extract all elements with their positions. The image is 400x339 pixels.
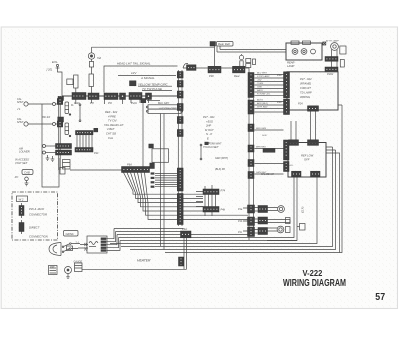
svg-text:N - P: N - P	[206, 132, 212, 136]
label box AT RED	[263, 149, 275, 153]
wire label underline tv pulse	[142, 90, 172, 92]
legend pin-jack symbol	[19, 203, 24, 218]
svg-text:P2H: P2H	[131, 101, 138, 105]
wire bundle b4 y240.5	[120, 177, 297, 241]
svg-text:AT RT LAMP: AT RT LAMP	[325, 40, 339, 43]
switch SW2	[62, 248, 71, 253]
connector J5 on bus	[146, 93, 152, 100]
svg-text:PIN & JACK: PIN & JACK	[29, 207, 44, 211]
svg-text:R TURN +B L: R TURN +B L	[257, 93, 271, 95]
wire fan from P6 pin5	[138, 173, 204, 212]
svg-text:YELLOW TEMP CIRC: YELLOW TEMP CIRC	[138, 82, 169, 86]
connector J7 on left vertical	[57, 121, 62, 127]
connector P16 on tail drop	[179, 257, 184, 266]
connector P9 on bus	[104, 93, 118, 100]
connector strip S1-h	[177, 194, 183, 225]
wire U2 right to corner drops	[326, 147, 336, 150]
svg-text:W 2: W 2	[19, 197, 24, 201]
svg-text:CH: CH	[68, 247, 72, 251]
connector S1-c	[177, 91, 183, 98]
wire heater relay feed y170	[70, 169, 122, 171]
svg-text:M OUT: M OUT	[205, 128, 214, 132]
ladder rung w2	[255, 77, 285, 79]
svg-text:J/C: J/C	[15, 175, 19, 179]
svg-text:RED GRN: RED GRN	[256, 128, 267, 130]
bulb B1	[292, 49, 298, 55]
license lamp	[331, 43, 339, 51]
wire bundle b6 y246.5	[121, 147, 333, 247]
main bus wire y96	[62, 95, 178, 97]
svg-text:RD 4/2: RD 4/2	[42, 115, 51, 119]
svg-text:GRN/L: GRN/L	[66, 232, 75, 236]
wire drops from rear defogger label	[215, 46, 287, 66]
svg-text:4 B&T: 4 B&T	[107, 127, 115, 131]
legend dashed box PIN JACK CONNECTOR	[12, 192, 58, 240]
fuse F1	[67, 75, 78, 93]
svg-text:GAUGE: GAUGE	[74, 260, 83, 263]
svg-text:J 201: J 201	[46, 68, 53, 72]
wire fan from P6 pin7	[145, 173, 249, 220]
ladder rung w6	[255, 91, 285, 93]
connector U2 left edge strip	[284, 140, 290, 160]
spine2 connector m2	[248, 217, 255, 226]
motor M2	[268, 226, 284, 233]
ladder2 rung x4	[255, 111, 285, 113]
inline connector arrows	[85, 243, 87, 251]
connector J4 on bus	[120, 93, 126, 100]
svg-text:CAL: CAL	[108, 136, 114, 140]
wire rear-defogger feed y47	[92, 46, 215, 48]
svg-text:HEATER: HEATER	[137, 259, 151, 263]
svg-text:P4b: P4b	[221, 208, 226, 212]
fusible link FL1	[65, 102, 71, 115]
ladder rung w1	[255, 74, 285, 76]
svg-text:(BLK) 4B: (BLK) 4B	[215, 168, 225, 171]
svg-text:P202: P202	[327, 72, 334, 76]
rear combination lamp box	[286, 41, 322, 60]
wire U2 top feeds	[291, 121, 296, 140]
connector P2H on bus	[129, 93, 142, 100]
connector L1 below license lamp	[325, 57, 338, 62]
svg-text:TV TW PULSE: TV TW PULSE	[142, 87, 163, 91]
heater control panel	[87, 236, 107, 253]
junction block on bus J10b	[58, 117, 64, 122]
net jump J2	[79, 104, 81, 122]
legend direct-connection symbol	[19, 220, 24, 234]
spine2 connector c2	[248, 145, 254, 152]
svg-text:P4A: P4A	[182, 227, 187, 231]
svg-text:+B1G: +B1G	[206, 119, 213, 123]
relay FL3	[63, 160, 71, 170]
junction box JB	[152, 149, 169, 163]
fuse F2 with bulb top	[88, 47, 94, 93]
wire bundle b1 y231.5	[116, 231, 182, 233]
net jump symbol	[200, 144, 202, 160]
ladder3 rung y3	[255, 163, 284, 165]
svg-text:AUTO: AUTO	[256, 99, 263, 102]
svg-text:TURN: TURN	[257, 83, 263, 85]
svg-text:P9: P9	[108, 101, 112, 105]
label box GRN/L	[64, 231, 79, 237]
connector U1 bottom P24	[308, 106, 319, 111]
connector S1-b	[177, 81, 183, 88]
svg-text:ALT FRN CIRC: ALT FRN CIRC	[158, 107, 177, 111]
svg-text:CHT SB: CHT SB	[106, 132, 116, 136]
svg-text:STOP LAMP: STOP LAMP	[257, 75, 270, 78]
wire long vertical x160	[160, 114, 162, 247]
spine2 connector strip A left	[248, 73, 254, 98]
motor M1	[268, 206, 285, 213]
spine harness S1 rails	[178, 70, 182, 226]
ground mark at license lamp	[323, 42, 326, 45]
junction block on bus J10a	[58, 97, 64, 101]
junction block J12	[150, 163, 155, 169]
svg-text:GND: GND	[257, 87, 262, 89]
cigar lighter L1	[65, 267, 72, 279]
connector U2 top a	[289, 140, 299, 146]
gauge unit	[75, 263, 83, 272]
connector U2 bottom a	[292, 171, 302, 177]
wire corner return A2	[267, 240, 297, 242]
svg-text:V-222: V-222	[303, 269, 323, 278]
ladder3 rung y4	[255, 173, 284, 175]
svg-text:LOUVER: LOUVER	[19, 150, 30, 154]
label boxes at F3	[246, 59, 256, 68]
svg-text:Rear: Rear	[234, 74, 240, 78]
svg-text:BACK: BACK	[257, 89, 263, 92]
svg-text:TOUCH SET: TOUCH SET	[203, 145, 219, 149]
label box B yellow	[130, 81, 137, 86]
fuse F3 at spine2 top	[239, 54, 243, 66]
connector S1-e	[177, 117, 183, 124]
spine2 connector c3	[248, 160, 254, 167]
label box D6 blu gry	[141, 99, 160, 103]
pin stems at bus connectors	[76, 100, 149, 105]
svg-text:Rear Defr: Rear Defr	[218, 42, 231, 46]
svg-text:BRN RED: BRN RED	[256, 146, 266, 148]
svg-text:P40: P40	[277, 73, 282, 77]
svg-text:57: 57	[375, 292, 385, 303]
ladder rung w4	[255, 84, 285, 86]
spine2 rails	[249, 73, 254, 240]
wire fan from P6 pin1	[124, 173, 204, 195]
svg-text:P27 - #22: P27 - #22	[300, 77, 312, 81]
svg-text:TV CM: TV CM	[108, 119, 117, 123]
label box MBF	[49, 266, 58, 275]
svg-text:(FRAME): (FRAME)	[300, 82, 311, 86]
connector K2 on bus y68	[208, 66, 221, 73]
connector strip A right	[284, 72, 290, 98]
ground G3 with circle	[25, 177, 29, 186]
wire bundle b7 y249.5	[130, 150, 336, 250]
small element below L1	[332, 60, 345, 68]
svg-text:MBF: MBF	[50, 266, 55, 268]
svg-text:OFF: OFF	[304, 158, 310, 162]
svg-text:CONNECTION: CONNECTION	[29, 235, 49, 239]
wire bundle b5 y243.5	[110, 177, 317, 244]
wires pigtails into spine strip	[151, 172, 178, 187]
antenna symbol EXL	[56, 64, 62, 96]
ladder2 rung x3	[255, 108, 285, 110]
svg-text:P1b: P1b	[238, 220, 243, 223]
connector U2 bottom b	[311, 171, 321, 177]
svg-text:HEAD LHT TAIL SIGNAL: HEAD LHT TAIL SIGNAL	[117, 62, 151, 66]
connector grid P74 body wires	[205, 195, 216, 207]
label prefix box W	[205, 142, 209, 145]
svg-text:(CLR): (CLR)	[302, 206, 305, 213]
wire license lamp down	[332, 50, 338, 57]
svg-text:GLN: GLN	[262, 135, 267, 137]
label small p7 marks	[243, 208, 248, 231]
connector K1 on bus y68	[187, 65, 197, 71]
terminal circles CAL SHUT row1	[24, 102, 60, 106]
wire bundle b8 y252.5	[165, 108, 342, 253]
connector strip S1-g	[177, 168, 183, 191]
svg-text:WIRING DIAGRAM: WIRING DIAGRAM	[283, 278, 346, 289]
rear window defogger box U2	[288, 143, 326, 178]
svg-text:DIRECT: DIRECT	[29, 226, 40, 230]
svg-text:P74: P74	[221, 189, 226, 193]
svg-text:E: E	[207, 137, 209, 141]
svg-text:GRN WHT: GRN WHT	[210, 143, 222, 146]
wire grid tails	[196, 185, 212, 216]
ladder2 rung x1	[255, 101, 285, 103]
svg-text:2HP: 2HP	[205, 124, 211, 128]
spine2 connector c4	[248, 172, 254, 179]
svg-text:4 PRE: 4 PRE	[108, 114, 116, 118]
wire U2 right second drop	[326, 153, 340, 253]
ground G2	[51, 156, 55, 162]
connector P202	[325, 67, 338, 72]
wire fan from P6 pin3	[131, 173, 204, 203]
svg-text:+BU: +BU	[257, 80, 262, 82]
wire tail drop x184	[184, 238, 187, 269]
wire label underline temp circ	[138, 85, 172, 87]
svg-text:GRN (WHT): GRN (WHT)	[215, 157, 228, 160]
svg-text:CONNECTOR: CONNECTOR	[29, 213, 47, 217]
terminal circles to junction block	[43, 145, 56, 155]
connector P8 on bus	[88, 93, 99, 100]
junction block J/C cluster	[56, 144, 72, 156]
connector U2 left edge strip b	[284, 162, 290, 172]
terminal circles CAL SHUT row2	[24, 122, 60, 126]
ladder2 rung x2	[255, 104, 285, 106]
connector K3 on bus y68	[233, 66, 246, 73]
spine2 connector c1	[248, 124, 254, 132]
wires switches to heater panel	[71, 244, 88, 249]
svg-text:TAIL REAR LHT: TAIL REAR LHT	[104, 123, 124, 127]
svg-text:EXL: EXL	[52, 60, 58, 64]
ladder rung w3	[255, 81, 285, 83]
ladder rung w7	[255, 94, 285, 96]
svg-text:BLU WHT: BLU WHT	[257, 73, 268, 75]
bulb B3	[311, 49, 316, 54]
wire bus y68 right section	[183, 68, 249, 73]
wire hop at spine	[183, 63, 188, 68]
wire drop from blu gry label	[142, 103, 144, 167]
svg-text:P6A: P6A	[127, 163, 132, 167]
svg-text:CIRCUIT: CIRCUIT	[300, 86, 311, 90]
connector grid P74 bottom row	[203, 207, 219, 213]
body harness box U1	[287, 72, 338, 110]
mid connector n1	[258, 206, 268, 213]
mid connector n3	[258, 228, 268, 235]
svg-text:BLU GRY: BLU GRY	[158, 101, 170, 105]
svg-text:P27 - #21: P27 - #21	[203, 115, 215, 119]
ladder3 rung y2	[255, 148, 284, 150]
wire bundle b2 y234.5	[117, 234, 248, 236]
switch SW1	[62, 243, 71, 248]
wire gauge to tail harness y269	[82, 268, 187, 270]
connector S1-d	[177, 104, 183, 111]
wire fan from P6 pin4	[134, 173, 203, 207]
wire bundle b3 y237.5	[119, 177, 295, 238]
svg-text:+B L: +B L	[289, 165, 294, 167]
label box at license lamp	[340, 46, 346, 54]
svg-text:J 1: J 1	[17, 107, 21, 111]
wires n2 to corner	[268, 220, 291, 224]
wire U1 right to far corner drop	[338, 105, 342, 108]
bordered table alt frn circ	[146, 105, 182, 114]
svg-text:IN ACCESS: IN ACCESS	[15, 158, 29, 162]
svg-text:P1a: P1a	[238, 208, 243, 211]
label box CH	[67, 246, 73, 251]
connector P3H on bus	[72, 93, 86, 100]
spine2 connector m3	[248, 227, 255, 237]
connector U2 top b	[308, 140, 319, 146]
wire head lht tail signal y66	[104, 66, 178, 93]
svg-text:INTR RAD: INTR RAD	[257, 106, 268, 109]
svg-text:P8: P8	[90, 101, 94, 105]
connector J6 on left vertical	[57, 99, 62, 105]
svg-text:CAB: CAB	[24, 171, 30, 175]
legend label box W2	[17, 196, 28, 202]
wire bundle b0 y228.5	[114, 228, 184, 230]
wire left vertical bus pair	[59, 96, 61, 170]
label box CAB	[22, 170, 33, 175]
mid connector n2	[258, 217, 268, 224]
bulb B2	[301, 49, 307, 55]
horn speaker symbol	[49, 243, 61, 256]
spine2 connector strip B left	[248, 100, 254, 114]
connector grid P74 top row	[203, 189, 219, 195]
svg-text:VOLT SET: VOLT SET	[15, 161, 28, 165]
wire 12V signal y75.5	[118, 75, 176, 77]
connector S1-f	[177, 130, 183, 137]
svg-text:SHUT: SHUT	[17, 121, 24, 124]
wire rear lamp feed y49.5	[220, 46, 286, 50]
svg-text:REF - #22: REF - #22	[105, 110, 118, 114]
fusible link FL2	[65, 123, 71, 137]
label box rear defogger	[210, 42, 233, 47]
ladder rung w5	[255, 88, 285, 90]
svg-text:A SIGNAL: A SIGNAL	[140, 76, 155, 80]
connector P4 on bundle	[181, 231, 192, 238]
svg-text:Tail: Tail	[97, 56, 101, 60]
svg-text:WIRING: WIRING	[300, 95, 310, 99]
ladder3 rung y1	[255, 129, 284, 131]
wire left vertical x42	[42, 104, 59, 187]
connector strip B right	[284, 99, 290, 115]
heater panel inner pins	[101, 238, 107, 252]
svg-text:P30: P30	[209, 74, 214, 78]
svg-text:P21: P21	[94, 151, 99, 155]
wire long vertical x164	[163, 114, 165, 250]
svg-text:TD LAMP: TD LAMP	[300, 91, 312, 95]
svg-text:CAL BD AM: CAL BD AM	[261, 173, 274, 176]
wire fan from P6 pin2	[127, 173, 203, 199]
connector P6 wide	[122, 167, 150, 173]
junction block J11	[149, 144, 154, 148]
fuse block grid P21	[75, 128, 98, 152]
svg-text:LAMP: LAMP	[287, 64, 295, 68]
wire fan from P6 pin6	[141, 173, 248, 216]
spine2 connector m1	[248, 205, 255, 213]
svg-text:P3H: P3H	[74, 101, 81, 105]
wire U1 to U2 verticals	[311, 111, 316, 140]
svg-text:SHUT: SHUT	[17, 101, 24, 104]
svg-text:REF LOW: REF LOW	[301, 154, 314, 158]
svg-text:2-1: 2-1	[75, 242, 80, 245]
svg-text:P40: P40	[277, 100, 282, 104]
svg-text:ADD (BLK): ADD (BLK)	[256, 102, 268, 105]
terminal boxes at motor wires	[286, 218, 291, 224]
small box right of motors	[297, 224, 305, 231]
connector S1-a	[177, 72, 183, 79]
wires spine2 to mid connectors	[255, 208, 259, 234]
relay box P5	[60, 168, 65, 175]
ground G1	[46, 155, 50, 161]
svg-text:P24: P24	[298, 102, 303, 106]
wires heater fan-out to bundle	[106, 229, 120, 251]
